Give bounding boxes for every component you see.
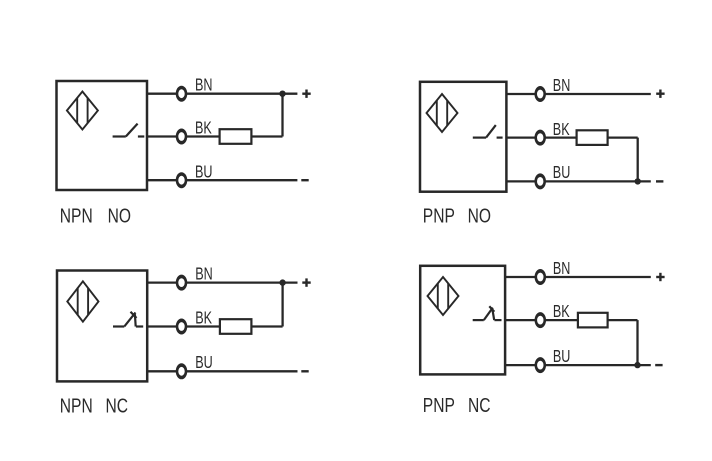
- wire link BK-to-BU (Q2): [637, 138, 639, 182]
- connector terminal BN (Q1): [176, 86, 188, 102]
- connector terminal BK (Q3): [176, 319, 188, 335]
- wire BN (Q1): [147, 93, 297, 95]
- sensor logo diamond (Q3): [67, 281, 98, 321]
- switch S4 NC contact (Q4): [473, 306, 502, 320]
- sensor logo diamond (Q4): [428, 277, 459, 315]
- connector terminal BU (Q3): [176, 363, 188, 379]
- switch S2 NO contact (Q2): [473, 125, 503, 138]
- svg-text:BU: BU: [195, 163, 212, 183]
- svg-text:BK: BK: [195, 308, 212, 328]
- junction node on BN (Q3): [279, 279, 285, 285]
- connector terminal BN (Q3): [176, 275, 188, 291]
- svg-text:NO: NO: [468, 205, 491, 227]
- sensor box U4 (PNP NC): [420, 266, 505, 375]
- junction node on BU (Q2): [635, 178, 641, 184]
- svg-text:PNP: PNP: [423, 205, 455, 227]
- wire BN (Q3): [147, 281, 297, 283]
- connector terminal BU (Q2): [534, 173, 546, 189]
- svg-text:BN: BN: [195, 264, 212, 284]
- svg-text:NPN: NPN: [60, 205, 93, 227]
- svg-text:BU: BU: [553, 163, 570, 183]
- wire BN (Q4): [505, 276, 651, 278]
- svg-text:BN: BN: [553, 76, 570, 96]
- connector terminal BK (Q4): [535, 312, 547, 328]
- resistor load R3 (Q3): [220, 319, 252, 334]
- wire BK (Q1): [147, 135, 283, 137]
- wire BU (Q1): [147, 179, 297, 181]
- wire BK (Q4): [505, 319, 637, 321]
- resistor load R4 (Q4): [578, 313, 608, 328]
- svg-text:NO: NO: [108, 205, 131, 227]
- minus terminal (Q4): [655, 364, 662, 366]
- plus terminal (Q1): [302, 90, 310, 98]
- plus terminal (Q2): [656, 90, 664, 98]
- caption PNP NO (Q2): [423, 205, 491, 227]
- switch S3 NC contact (Q3): [113, 312, 143, 327]
- sensor logo diamond (Q2): [427, 94, 458, 132]
- svg-text:PNP: PNP: [423, 394, 455, 416]
- connector terminal BK (Q1): [176, 129, 188, 145]
- svg-text:BU: BU: [195, 353, 212, 373]
- sensor box U2 (PNP NO): [420, 82, 506, 192]
- minus terminal (Q1): [301, 179, 308, 181]
- plus terminal (Q3): [302, 278, 310, 286]
- resistor load R2 (Q2): [577, 130, 608, 145]
- wire BK (Q3): [147, 325, 282, 327]
- svg-text:NC: NC: [106, 395, 129, 417]
- wire BU (Q4): [505, 364, 651, 366]
- junction node on BU (Q4): [634, 362, 640, 368]
- svg-text:BU: BU: [553, 347, 570, 367]
- svg-text:BK: BK: [553, 302, 570, 322]
- svg-text:NPN: NPN: [60, 395, 93, 417]
- caption NPN NC (Q3): [60, 395, 128, 417]
- sensor box U3 (NPN NC): [57, 271, 147, 382]
- connector terminal BN (Q2): [534, 86, 546, 102]
- junction node on BN (Q1): [279, 91, 285, 97]
- caption NPN NO (Q1): [60, 205, 131, 227]
- plus terminal (Q4): [656, 273, 664, 281]
- svg-text:BN: BN: [195, 76, 212, 96]
- wire link BK-to-BN (Q3): [281, 283, 283, 327]
- connector terminal BN (Q4): [535, 269, 547, 285]
- connector terminal BU (Q4): [535, 357, 547, 373]
- connector terminal BU (Q1): [176, 172, 188, 188]
- wire link BK-to-BU (Q4): [636, 320, 638, 365]
- wire BU (Q3): [147, 370, 297, 372]
- svg-text:NC: NC: [468, 394, 491, 416]
- sensor logo diamond (Q1): [67, 92, 98, 130]
- wire link BK-to-BN (Q1): [281, 94, 283, 137]
- wire BK (Q2): [506, 136, 637, 138]
- sensor box U1 (NPN NO): [57, 81, 148, 190]
- caption PNP NC (Q4): [423, 394, 491, 416]
- svg-text:BK: BK: [195, 118, 212, 138]
- svg-text:BK: BK: [553, 120, 570, 140]
- svg-text:BN: BN: [553, 259, 570, 279]
- resistor load R1 (Q1): [220, 129, 252, 144]
- wire BN (Q2): [506, 93, 650, 95]
- connector terminal BK (Q2): [534, 130, 546, 146]
- switch S1 NO contact (Q1): [113, 124, 145, 137]
- wire BU (Q2): [506, 180, 650, 182]
- minus terminal (Q2): [656, 180, 663, 182]
- minus terminal (Q3): [301, 370, 308, 372]
